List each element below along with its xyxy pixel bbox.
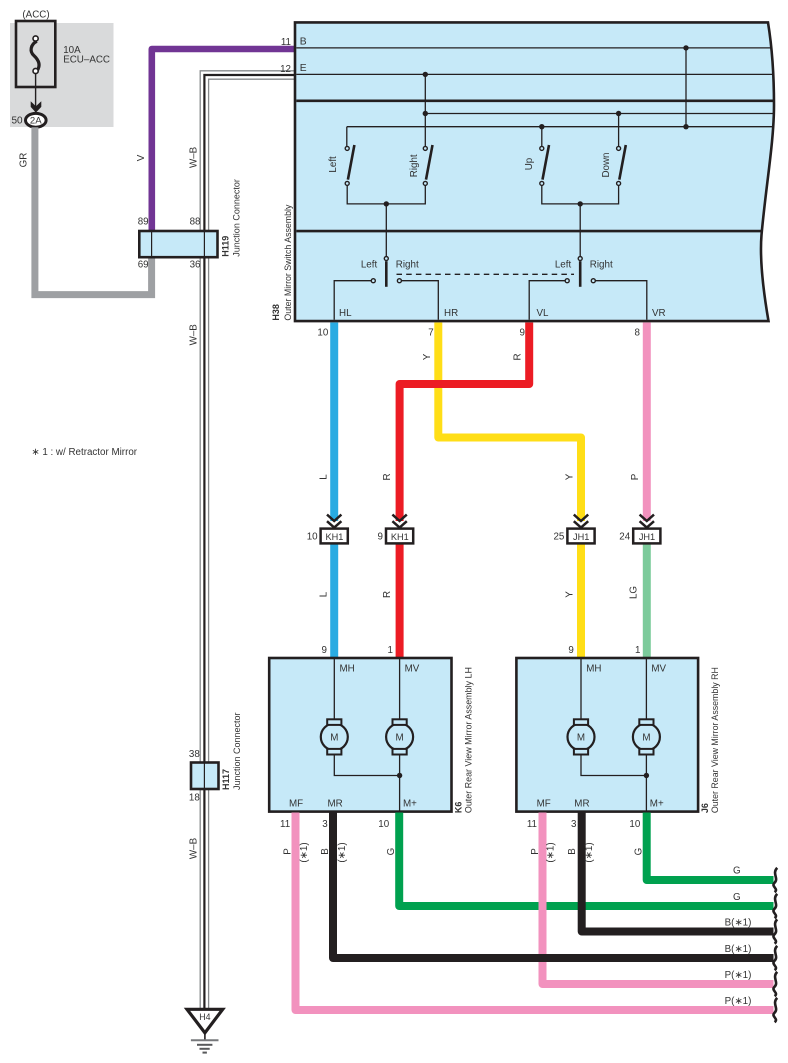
svg-text:Outer Rear View Mirror Assembl: Outer Rear View Mirror Assembly RH: [710, 667, 720, 813]
svg-text:KH1: KH1: [391, 532, 409, 542]
svg-text:G: G: [733, 892, 741, 903]
svg-text:VR: VR: [652, 308, 666, 319]
svg-text:MR: MR: [574, 798, 589, 809]
svg-text:MH: MH: [586, 664, 601, 675]
svg-text:Right: Right: [409, 154, 420, 177]
svg-text:KH1: KH1: [325, 532, 343, 542]
svg-text:10: 10: [629, 819, 640, 830]
svg-text:9: 9: [520, 328, 525, 339]
svg-text:10: 10: [307, 531, 318, 542]
svg-text:36: 36: [190, 260, 201, 271]
svg-text:(∗1): (∗1): [299, 842, 310, 862]
svg-text:R: R: [382, 591, 393, 598]
svg-text:G: G: [733, 866, 741, 877]
svg-text:H4: H4: [199, 1012, 210, 1022]
svg-text:LG: LG: [629, 586, 640, 599]
svg-text:M: M: [642, 732, 650, 743]
svg-text:W–B: W–B: [188, 837, 199, 859]
svg-text:E: E: [300, 63, 307, 74]
svg-text:V: V: [136, 154, 147, 161]
svg-text:HL: HL: [339, 308, 352, 319]
svg-text:B: B: [300, 36, 307, 47]
svg-text:M: M: [330, 732, 338, 743]
svg-text:Right: Right: [590, 259, 613, 270]
svg-text:B: B: [567, 848, 578, 855]
svg-text:88: 88: [190, 217, 201, 228]
svg-text:9: 9: [322, 645, 327, 656]
svg-text:H117: H117: [221, 769, 231, 790]
svg-text:11: 11: [280, 819, 290, 830]
svg-text:G: G: [386, 848, 397, 856]
svg-text:89: 89: [138, 217, 149, 228]
svg-text:Outer Mirror Switch Assembly: Outer Mirror Switch Assembly: [283, 204, 293, 320]
svg-text:2A: 2A: [30, 116, 42, 127]
svg-text:B: B: [320, 848, 331, 855]
svg-text:J6: J6: [700, 803, 710, 813]
svg-text:1: 1: [388, 645, 393, 656]
svg-text:MR: MR: [328, 798, 343, 809]
svg-text:24: 24: [619, 531, 630, 542]
svg-text:9: 9: [568, 645, 573, 656]
svg-text:H38: H38: [271, 304, 281, 321]
svg-text:∗ 1 : w/ Retractor Mirror: ∗ 1 : w/ Retractor Mirror: [31, 447, 137, 458]
svg-text:R: R: [513, 353, 524, 360]
svg-text:11: 11: [527, 819, 537, 830]
svg-text:(ACC): (ACC): [22, 10, 49, 21]
svg-text:Y: Y: [565, 473, 576, 480]
svg-text:MF: MF: [537, 798, 551, 809]
svg-text:MV: MV: [405, 664, 420, 675]
svg-text:MV: MV: [651, 664, 666, 675]
svg-text:JH1: JH1: [573, 532, 589, 542]
svg-text:38: 38: [189, 749, 200, 760]
svg-text:M+: M+: [403, 798, 417, 809]
svg-text:ECU–ACC: ECU–ACC: [63, 55, 110, 66]
svg-text:L: L: [318, 591, 329, 597]
svg-text:(∗1): (∗1): [337, 842, 348, 862]
svg-text:P(∗1): P(∗1): [725, 996, 752, 1007]
svg-text:10: 10: [317, 328, 328, 339]
svg-text:H119: H119: [220, 236, 230, 257]
svg-text:R: R: [382, 473, 393, 480]
svg-text:50: 50: [11, 115, 23, 126]
svg-text:Left: Left: [361, 259, 378, 270]
svg-text:Y: Y: [565, 591, 576, 598]
svg-text:P: P: [630, 473, 641, 480]
svg-text:MF: MF: [289, 798, 303, 809]
svg-text:K6: K6: [454, 802, 464, 814]
svg-text:3: 3: [322, 819, 328, 830]
svg-text:P(∗1): P(∗1): [725, 970, 752, 981]
svg-text:12: 12: [280, 64, 291, 75]
svg-text:Left: Left: [328, 156, 339, 173]
svg-text:Up: Up: [524, 157, 535, 170]
svg-text:10: 10: [378, 819, 389, 830]
svg-text:69: 69: [138, 260, 149, 271]
svg-text:W–B: W–B: [188, 146, 199, 168]
svg-text:3: 3: [571, 819, 577, 830]
svg-text:Junction Connector: Junction Connector: [232, 712, 242, 790]
svg-text:Right: Right: [396, 259, 419, 270]
svg-text:MH: MH: [340, 664, 355, 675]
svg-text:8: 8: [635, 328, 641, 339]
svg-text:P: P: [283, 848, 294, 855]
svg-text:7: 7: [428, 328, 433, 339]
svg-text:18: 18: [189, 793, 200, 804]
svg-text:P: P: [530, 848, 541, 855]
svg-text:W–B: W–B: [188, 324, 199, 346]
svg-text:JH1: JH1: [639, 532, 655, 542]
svg-text:M: M: [577, 732, 585, 743]
svg-text:M: M: [396, 732, 404, 743]
svg-text:L: L: [318, 474, 329, 480]
svg-text:GR: GR: [18, 153, 29, 168]
svg-text:Y: Y: [422, 353, 433, 360]
svg-text:G: G: [634, 848, 645, 856]
svg-text:(∗1): (∗1): [545, 842, 556, 862]
svg-text:B(∗1): B(∗1): [725, 918, 752, 929]
svg-text:9: 9: [378, 531, 383, 542]
svg-text:B(∗1): B(∗1): [725, 944, 752, 955]
svg-text:Outer Rear View Mirror Assembl: Outer Rear View Mirror Assembly LH: [463, 667, 473, 813]
svg-text:Junction Connector: Junction Connector: [231, 179, 241, 257]
svg-text:VL: VL: [537, 308, 550, 319]
svg-text:Left: Left: [555, 259, 572, 270]
svg-text:HR: HR: [444, 308, 458, 319]
svg-text:Down: Down: [601, 152, 612, 177]
svg-text:11: 11: [281, 37, 291, 48]
svg-text:25: 25: [553, 531, 564, 542]
svg-text:M+: M+: [650, 798, 664, 809]
svg-text:1: 1: [635, 645, 640, 656]
svg-text:(∗1): (∗1): [584, 842, 595, 862]
